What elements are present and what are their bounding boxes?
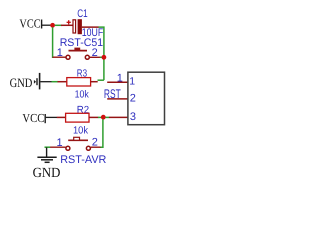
capacitor C1 plates (73, 19, 82, 34)
switch RST-C51 actuator bar (69, 48, 88, 51)
capacitor C1 left pin (61, 24, 73, 26)
svg-text:1: 1 (57, 47, 63, 59)
wire R3 to RST vertical corner (98, 79, 104, 81)
svg-text:3: 3 (130, 111, 136, 123)
switch RST-C51 contact circle right (85, 55, 89, 59)
connector P1 body (128, 72, 165, 125)
wire switch RST-AVR pin1 to ground (45, 146, 51, 148)
svg-text:2: 2 (92, 137, 98, 149)
svg-text:C1: C1 (77, 8, 87, 20)
svg-text:RST-AVR: RST-AVR (60, 154, 106, 166)
wire C1 to RST node (top right corner + vertical) (99, 27, 104, 80)
connector P1 pin 1 wire (107, 81, 128, 83)
resistor R3 right pin (91, 81, 98, 83)
svg-text:GND: GND (33, 166, 61, 181)
wire GND port to R3 (52, 81, 59, 83)
switch RST-C51 contact circle left (66, 55, 70, 59)
capacitor C1 plus sign (67, 20, 71, 24)
ground symbol (earth) (37, 147, 56, 162)
resistor R2 body (66, 113, 89, 122)
svg-text:1: 1 (129, 76, 135, 88)
svg-text:10k: 10k (75, 90, 90, 101)
resistor R3 body (67, 78, 91, 86)
capacitor C1 right pin (82, 26, 99, 28)
power port GND (middle left) (10, 73, 52, 90)
junction dot R2/P1.3/RST-AVR (101, 115, 106, 120)
wire junction to P1 pin3 (106, 116, 110, 118)
wire R2 to junction (98, 116, 101, 118)
switch RST-AVR contact circle right (86, 146, 90, 150)
svg-text:1: 1 (117, 72, 123, 84)
resistor R2 left pin (57, 116, 66, 118)
wire VCC junction to C1 (55, 24, 62, 26)
svg-text:GND: GND (10, 76, 33, 90)
switch RST-AVR actuator bar (68, 137, 88, 140)
power port VCC (middle) (22, 111, 57, 125)
power port VCC (top) (19, 17, 50, 31)
switch RST-C51 pin 2 wire (89, 56, 100, 58)
connector P1 pin 3 wire (109, 116, 129, 118)
connector P1 pin 2 wire (107, 98, 128, 100)
wire left drop from VCC junction to switch RST-C51 (52, 27, 55, 57)
svg-text:2: 2 (130, 92, 136, 104)
wire pin2 to RST vertical (100, 56, 104, 58)
resistor R2 right pin (89, 116, 98, 118)
switch RST-C51 pin 1 wire (53, 56, 66, 58)
resistor R3 left pin (58, 81, 67, 83)
wire junction down to switch RST-AVR (100, 119, 103, 147)
svg-text:VCC: VCC (19, 17, 40, 31)
switch RST-AVR pin 2 wire (91, 146, 101, 148)
junction dot RST node at switch (102, 55, 107, 60)
svg-text:VCC: VCC (22, 111, 44, 125)
switch RST-AVR contact circle left (66, 146, 70, 150)
svg-text:10k: 10k (73, 126, 89, 137)
switch RST-AVR pin 1 wire (50, 146, 66, 148)
junction dot node VCC/C1/switch (50, 23, 55, 28)
